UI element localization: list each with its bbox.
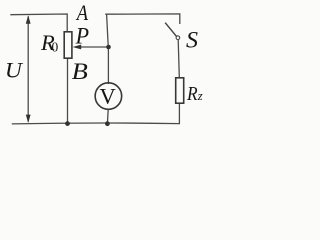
svg-text:P: P	[75, 23, 89, 48]
svg-text:R: R	[186, 83, 198, 105]
svg-text:0: 0	[52, 39, 59, 54]
svg-text:z: z	[197, 89, 203, 103]
svg-text:B: B	[72, 59, 88, 84]
svg-text:A: A	[75, 0, 88, 25]
svg-text:S: S	[186, 27, 199, 52]
svg-text:U: U	[5, 57, 24, 82]
svg-text:V: V	[100, 84, 116, 109]
